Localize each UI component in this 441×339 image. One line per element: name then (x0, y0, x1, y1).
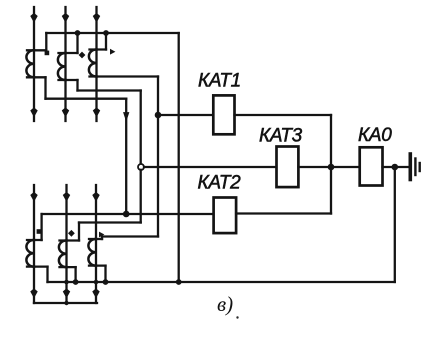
wire TA5 bottom stub (60, 266, 76, 268)
node junction top bus / TA3 riser (103, 30, 109, 36)
node junction of three relay branches (328, 164, 335, 171)
polarity mark TA6 (99, 232, 104, 238)
wire TA5 top terminal riser (78, 223, 80, 241)
ground symbol (410, 154, 419, 180)
polarity mark TA3 (110, 49, 115, 55)
wire TA6 staircase run (102, 235, 158, 237)
node junction KAT1 wire start (155, 112, 162, 119)
current transformer TA1 secondary winding (top group, phase A) (26, 50, 34, 77)
wire KAT3 branch left (144, 166, 277, 168)
wire TA1 staircase run (46, 98, 127, 100)
wire phase end bar (34, 302, 97, 304)
wire TA5 top stub (60, 239, 80, 241)
wire TA1 top terminal riser (45, 33, 47, 50)
arrow current direction phase A (bottom group top) (31, 193, 37, 201)
arrow current direction phase C top (93, 14, 99, 22)
arrow current direction phase B top (62, 14, 68, 22)
wire TA6 top terminal riser (101, 237, 103, 240)
wire TA4 top stub (27, 239, 42, 241)
node junction KAT2 wire / TA1 output (123, 211, 130, 218)
wire KAT1 output drop (330, 115, 332, 167)
wire bottom secondary bus (48, 281, 395, 283)
svg-text:КАТ2: КАТ2 (198, 173, 242, 194)
node junction KA0 / ground / return (392, 164, 399, 171)
wire TA6 bottom stub (89, 264, 106, 266)
arrow current direction phase A top (31, 14, 37, 22)
wire KAT1 branch right (235, 114, 332, 116)
wire TA3 top stub (90, 48, 107, 50)
wire TA4 top terminal riser (40, 214, 42, 240)
arrow current direction phase A (bottom group bottom) (31, 289, 37, 297)
relay coil KA0 (360, 147, 383, 185)
relay coil KAT1 (213, 95, 234, 134)
wire phase A line (top group) (33, 7, 35, 121)
node crossing blob bus/phase B (64, 280, 69, 285)
current transformer TA5 secondary winding (bottom group, phase B) (59, 241, 67, 268)
wire phase B line (top group) (64, 7, 66, 121)
wire KAT3 branch right (298, 166, 359, 168)
current transformer TA6 secondary winding (bottom group, phase C) (88, 239, 96, 266)
node junction end bar / phase B (64, 301, 68, 305)
wire phase C line (bottom group) (95, 185, 97, 303)
relay coil KAT3 (277, 147, 299, 188)
wire TA1 top stub (27, 49, 46, 51)
relay coil KAT2 (214, 198, 237, 234)
wire TA6 drop to bottom bus (104, 266, 106, 282)
arrow current direction phase A bottom (31, 108, 37, 116)
wire TA1 bottom stub (27, 76, 46, 78)
wire TA1 output drop to KAT2 wire (125, 99, 127, 214)
wire TA3 output drop to KAT1 wire (157, 77, 159, 116)
wire TA5 drop to bottom bus (74, 267, 76, 282)
current transformer TA2 secondary winding (top group, phase B) (58, 53, 66, 80)
current transformer TA4 secondary winding (bottom group, phase A) (26, 240, 34, 267)
arrow current direction phase B (bottom group bottom) (63, 289, 69, 297)
node crossing blob bus/phase C (94, 280, 99, 285)
polarity mark TA2 (79, 52, 86, 59)
wire TA5 riser continuation to KAT3 circle (140, 170, 142, 223)
wire TA1 staircase drop (44, 77, 46, 98)
arrow current direction phase C (bottom group top) (93, 193, 99, 201)
wire TA2 staircase run (78, 89, 141, 91)
wire TA2 top stub (59, 52, 78, 54)
arrow current direction phase B (bottom group top) (63, 193, 69, 201)
polarity mark TA4 (37, 229, 42, 234)
wire TA2 staircase drop (76, 80, 78, 91)
wire TA6 top stub (89, 238, 102, 240)
wire KA0 output (383, 166, 409, 168)
wire phase B line (bottom group) (65, 185, 67, 303)
wire TA2 top terminal riser (76, 33, 78, 53)
node junction bottom bus / TA5 drop (73, 279, 79, 285)
polarity mark TA5 (68, 230, 75, 237)
svg-text:в): в) (217, 292, 233, 316)
wire KAT1 branch left (158, 114, 213, 116)
node junction bottom bus / common riser (176, 279, 182, 285)
wire TA3 bottom stub long run (90, 75, 159, 77)
current transformer TA3 secondary winding (top group, phase C) (89, 50, 97, 77)
arrow mark on TA1 output drop (124, 113, 129, 121)
svg-text:КАТ3: КАТ3 (259, 126, 303, 147)
arrow current direction phase B bottom (62, 108, 68, 116)
wire TA3 top terminal riser (105, 33, 107, 50)
svg-text:КА0: КА0 (358, 125, 392, 146)
wire TA2 bottom stub (59, 79, 78, 81)
node junction top bus / TA2 riser (75, 30, 81, 36)
wire common riser from top bus to bottom bus (178, 33, 180, 282)
wire TA4 drop to bottom bus (46, 267, 48, 282)
wire TA5 staircase run (79, 221, 141, 223)
arrow current direction phase C bottom (93, 108, 99, 116)
wire phase C line (top group) (95, 7, 97, 121)
wire TA6 riser continuation to KAT1 junction (157, 115, 159, 237)
wire return drop from ground node (394, 167, 396, 282)
polarity mark TA1 (45, 51, 50, 56)
wire KAT2 riser to junction (330, 167, 332, 214)
arrow current direction phase C (bottom group bottom) (93, 289, 99, 297)
wire TA4 bottom stub (27, 265, 48, 267)
wire phase A line (bottom group) (33, 185, 35, 303)
wire top secondary bus (46, 32, 178, 34)
wire TA2 output drop to KAT3 wire (140, 91, 142, 165)
stray dot after caption (236, 316, 238, 318)
svg-text:КАТ1: КАТ1 (198, 71, 241, 92)
node junction bottom bus / TA6 drop (103, 279, 109, 285)
node open circle junction KAT3 wire start (138, 164, 144, 170)
wire KAT2 branch right (236, 212, 331, 214)
wire KAT2 branch left (42, 213, 214, 215)
